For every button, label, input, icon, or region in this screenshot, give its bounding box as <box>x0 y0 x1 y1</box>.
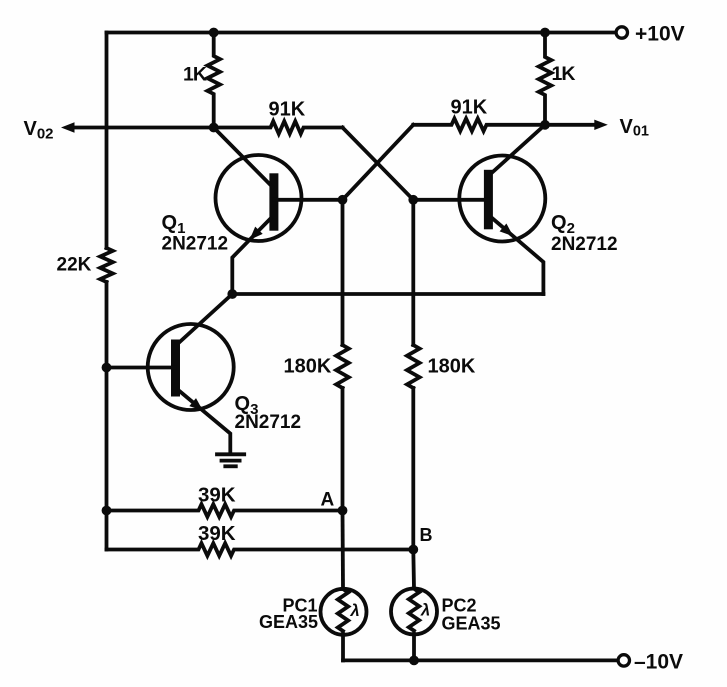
svg-text:2N2712: 2N2712 <box>551 234 618 255</box>
wire: cross-couple V01 node to Q1 base node <box>343 125 414 200</box>
svg-text:2N2712: 2N2712 <box>235 412 302 433</box>
svg-text:GEA35: GEA35 <box>442 614 501 634</box>
wire: Q3 emitter diagonal <box>180 392 230 453</box>
junction: node V02/1K/91K/Q1 collector <box>209 123 219 133</box>
wire: PC2 to bottom rail <box>412 634 416 660</box>
svg-text:39K: 39K <box>198 484 236 507</box>
ground <box>217 452 244 456</box>
resistor 22K <box>100 248 113 282</box>
junction: node V01/1K/Q2 collector <box>540 120 550 130</box>
arrow: V02 (points left) <box>61 122 75 132</box>
wire: 180K right to node B <box>411 388 415 550</box>
svg-text:A: A <box>321 490 335 511</box>
junction: Q1 base node <box>338 195 348 205</box>
photocell PC2 element <box>409 589 419 631</box>
transistor Q2 body circle <box>459 156 545 242</box>
resistor 39K upper <box>107 504 343 517</box>
resistor 180K left <box>336 345 349 388</box>
node B <box>408 545 418 555</box>
svg-text:B: B <box>420 525 433 545</box>
wire: +10V top rail <box>107 31 616 35</box>
wire: left rail (top) <box>105 33 109 249</box>
junction: Q2 base node <box>408 195 418 205</box>
wire: emitter bus Q1-Q2 <box>232 292 543 296</box>
photocell PC2 body circle <box>391 589 437 635</box>
wire: V02 output line <box>72 126 214 130</box>
wire: left rail (bottom) <box>105 282 109 550</box>
wire: Q1 base lead <box>274 198 343 202</box>
wire: V01 output line <box>545 123 595 127</box>
transistor Q2 base bar <box>484 170 493 230</box>
svg-text:λ: λ <box>420 602 430 620</box>
resistor 1K left <box>207 33 220 128</box>
svg-text:180K: 180K <box>284 356 332 378</box>
photocell PC1 element <box>338 589 348 631</box>
wire: cross-couple V02 node to Q2 base node <box>343 128 414 200</box>
svg-text:+10V: +10V <box>635 23 685 46</box>
arrow: V01 (points right) <box>594 120 608 130</box>
svg-text:1K: 1K <box>552 63 576 85</box>
wire: Q2 collector <box>491 125 546 174</box>
wire: Q2 base node down to 180K <box>411 200 415 345</box>
wire: Q2 emitter diagonal <box>492 218 543 294</box>
arrow: Q2 emitter <box>500 224 514 237</box>
arrow: Q3 emitter <box>189 398 203 411</box>
junction: emitter bus / Q3 collector <box>227 289 237 299</box>
node A <box>338 506 348 516</box>
svg-text:22K: 22K <box>57 255 92 276</box>
resistor 39K lower <box>107 543 414 556</box>
transistor Q3 base bar <box>171 340 180 397</box>
wire: node B down to PC2 <box>411 550 416 589</box>
svg-text:180K: 180K <box>428 356 476 378</box>
junction: top rail / 1K left <box>209 28 219 38</box>
svg-text:PC2: PC2 <box>442 596 477 616</box>
resistor 180K right <box>407 345 420 388</box>
arrow: Q1 emitter <box>250 227 263 240</box>
terminal -10V <box>618 655 629 666</box>
svg-text:–10V: –10V <box>634 651 683 674</box>
photocell PC1 body circle <box>321 589 367 635</box>
transistor Q1 body circle <box>216 155 302 241</box>
svg-text:39K: 39K <box>198 522 236 545</box>
svg-text:2N2712: 2N2712 <box>162 234 229 255</box>
wire: Q1 emitter diagonal <box>232 219 270 295</box>
junction: left rail / Q3 base <box>102 363 112 373</box>
terminal +10V <box>616 27 627 38</box>
wire: Q1 base node down to 180K <box>341 200 345 345</box>
transistor Q1 base bar <box>269 173 278 230</box>
resistor 91K right <box>413 119 545 132</box>
wire: Q1 collector <box>214 128 273 188</box>
transistor Q3 body circle <box>148 324 234 410</box>
wire: node A down to PC1 <box>341 511 345 589</box>
svg-text:λ: λ <box>350 602 360 620</box>
wire: Q3 base lead <box>107 366 176 370</box>
junction: top rail / 1K right <box>540 28 550 38</box>
wire: 180K left to node A <box>341 388 345 511</box>
svg-text:91K: 91K <box>451 97 488 119</box>
resistor 1K right <box>539 33 552 125</box>
wire: -10V bottom rail <box>343 659 618 663</box>
wire: Q2 base lead <box>413 198 488 202</box>
svg-text:1K: 1K <box>183 64 207 86</box>
svg-text:91K: 91K <box>269 99 306 121</box>
wire: Q3 collector <box>178 294 233 344</box>
junction: bottom rail / PC2 <box>409 656 419 666</box>
resistor 91K left <box>214 121 343 134</box>
junction: left rail / 39K upper <box>102 506 112 516</box>
wire: PC1 to bottom rail <box>341 634 345 660</box>
svg-text:GEA35: GEA35 <box>259 612 318 632</box>
